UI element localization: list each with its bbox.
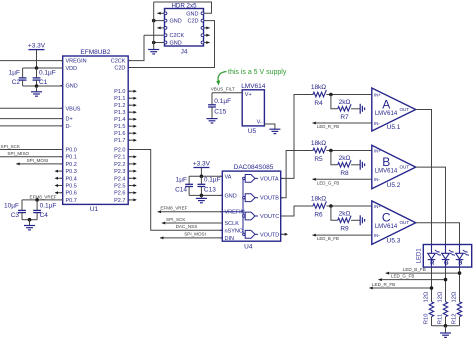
- U4 internal reference bus: [242, 178, 244, 234]
- wire C1 top lead: [36, 68, 38, 78]
- svg-text:SPI_MOSI: SPI_MOSI: [184, 232, 206, 237]
- capacitor C3 symbol: [18, 210, 26, 212]
- arrow net flag LED_B_FB: [312, 234, 315, 237]
- svg-text:U4: U4: [244, 243, 253, 250]
- wire C2CK U1 to header: [128, 35, 144, 60]
- wire stub P2.5: [128, 185, 136, 187]
- header J4 pin circles right: [201, 12, 204, 15]
- svg-text:C3: C3: [11, 212, 20, 219]
- svg-text:C14: C14: [175, 187, 187, 194]
- wire stub P2.2: [128, 163, 136, 165]
- wire C14 top lead: [188, 176, 190, 184]
- U4 output buffer VOUTD: [243, 230, 258, 238]
- DAC U4 DAC084S085 outline: [222, 171, 280, 241]
- svg-text:P2.3: P2.3: [114, 169, 125, 175]
- svg-text:B: B: [382, 155, 390, 169]
- svg-text:C13: C13: [204, 187, 216, 194]
- junction GND bus: [35, 84, 39, 88]
- arrow net stub header pin1: [157, 12, 160, 15]
- resistor R6 18k zigzag: [313, 201, 326, 208]
- wire stub P1.5: [128, 125, 136, 127]
- wire LED R cathode column: [431, 267, 433, 302]
- arrow net flag SPI_MOSI: [160, 236, 163, 239]
- wire stub P2.1: [128, 156, 136, 158]
- wire LED_R_FB tap: [369, 287, 431, 289]
- svg-text:P2.1: P2.1: [114, 155, 125, 161]
- svg-text:U5.1: U5.1: [387, 124, 401, 131]
- svg-text:0.1µF: 0.1µF: [39, 70, 56, 77]
- svg-text:P1.3: P1.3: [114, 110, 125, 116]
- svg-text:R11: R11: [438, 314, 444, 324]
- wire stub P1.6: [128, 132, 136, 134]
- junction R6/R9: [329, 204, 333, 208]
- wire stub P1.7: [128, 139, 136, 141]
- wire stub P2.7: [128, 199, 136, 201]
- wire +3.3V to VDD: [36, 50, 38, 68]
- svg-text:DAC084S085: DAC084S085: [234, 164, 274, 171]
- svg-text:GND: GND: [225, 193, 237, 199]
- ground at R7: [360, 104, 364, 114]
- svg-text:18kΩ: 18kΩ: [311, 140, 326, 147]
- wire C3 bottom lead: [21, 213, 23, 220]
- svg-text:IN-: IN-: [374, 233, 381, 238]
- wire header right stub 3: [203, 42, 210, 44]
- resistor R4 18k zigzag: [313, 90, 326, 97]
- svg-text:J4: J4: [181, 49, 188, 56]
- svg-text:12Ω: 12Ω: [424, 291, 430, 302]
- svg-text:R8: R8: [340, 170, 349, 177]
- wire VOUTC to R6: [281, 206, 313, 216]
- svg-text:12Ω: 12Ω: [438, 291, 444, 302]
- wire VBUS from left edge: [0, 107, 63, 109]
- arrow net flag LED_B_FB: [386, 272, 389, 275]
- wire stub P2.3: [128, 170, 136, 172]
- svg-text:GND: GND: [170, 41, 182, 47]
- svg-text:LED_R_FB: LED_R_FB: [317, 124, 339, 129]
- svg-text:R4: R4: [314, 100, 323, 107]
- wire junction down to R7: [331, 95, 338, 109]
- svg-text:R: R: [430, 260, 434, 266]
- ground at C15: [207, 119, 218, 123]
- wire header C2CK pin: [144, 34, 166, 36]
- svg-text:C1: C1: [39, 79, 48, 86]
- LED package LED1 outline: [423, 245, 471, 268]
- wire C15 bottom lead: [211, 107, 213, 118]
- wire U5.3 output to LED: [416, 223, 460, 245]
- arrow net flag LED_R_FB: [369, 287, 372, 290]
- wire stub P1.0: [128, 90, 136, 92]
- svg-text:R9: R9: [340, 225, 349, 232]
- svg-text:10µF: 10µF: [4, 203, 19, 210]
- wire header right stub 2: [203, 34, 210, 36]
- ground at U5 V-: [269, 129, 280, 133]
- arrow net stub: [206, 26, 209, 29]
- wire SPI_MOSI to U4 DIN: [160, 237, 222, 239]
- wire C1 bottom lead: [36, 80, 38, 86]
- svg-text:DIN: DIN: [225, 236, 235, 242]
- wire stub P2.4: [128, 177, 136, 179]
- wire C3 top lead: [21, 200, 23, 211]
- svg-text:LED_B_FB: LED_B_FB: [403, 267, 426, 272]
- +3.3V supply at U4: [193, 160, 211, 167]
- capacitor C2 symbol: [19, 78, 27, 80]
- arrow net flag SPI_SCK: [162, 222, 165, 225]
- svg-text:GND: GND: [186, 11, 198, 17]
- wire VOUTD stub: [281, 233, 287, 235]
- microcontroller U1 EFM8UB2 outline: [63, 56, 129, 204]
- wire R8 to ground: [351, 164, 360, 166]
- svg-text:12Ω: 12Ω: [452, 291, 458, 302]
- junction VA / +3.3V: [200, 175, 204, 179]
- svg-text:V-: V-: [257, 120, 262, 126]
- wire LED_R_FB to IN-: [312, 122, 371, 124]
- svg-text:P1.4: P1.4: [114, 117, 125, 123]
- svg-text:P0.3: P0.3: [66, 169, 77, 175]
- wire LED G cathode column: [445, 267, 447, 302]
- svg-text:R10: R10: [424, 314, 430, 325]
- svg-text:OUT: OUT: [399, 165, 409, 170]
- svg-text:SCLK: SCLK: [225, 221, 240, 227]
- ground at R8: [360, 160, 364, 170]
- arrow net flag LED_G_FB: [312, 178, 315, 181]
- svg-text:LED_B_FB: LED_B_FB: [317, 236, 339, 241]
- wire LED_B_FB to IN-: [312, 234, 371, 236]
- svg-text:LMV614: LMV614: [375, 111, 398, 117]
- junction GND bus / pin3: [152, 19, 156, 23]
- svg-text:P2.0: P2.0: [114, 148, 125, 154]
- capacitor C15 symbol: [208, 105, 216, 107]
- op-amp power U5 outline: [242, 90, 264, 126]
- svg-text:0.1µF: 0.1µF: [204, 176, 221, 183]
- wire stub P0.5: [56, 185, 63, 187]
- svg-text:LED_G_FB: LED_G_FB: [317, 180, 340, 185]
- svg-text:P1.7: P1.7: [114, 138, 125, 144]
- svg-text:A: A: [382, 97, 390, 111]
- svg-text:nSYNC: nSYNC: [225, 228, 243, 234]
- svg-text:P0.7: P0.7: [66, 198, 77, 204]
- arrow net stub: [206, 41, 209, 44]
- wire SPI_SCK to P0.0: [0, 149, 63, 151]
- junction bottom bus gnd drop: [28, 218, 32, 222]
- wire to ground C3 C4: [29, 220, 31, 226]
- wire R11 to gnd bus: [445, 317, 447, 326]
- junction GND bus at U4: [200, 194, 204, 198]
- LED G symbol in LED1: [442, 245, 455, 268]
- junction VDD / +3.3V: [35, 66, 39, 70]
- U4 output buffer VOUTC: [243, 212, 258, 220]
- svg-text:P1.0: P1.0: [114, 89, 125, 95]
- wire R4 to IN+: [326, 94, 371, 96]
- wire stub P1.2: [128, 104, 136, 106]
- svg-text:C2D: C2D: [187, 19, 198, 25]
- LED R symbol in LED1: [428, 245, 441, 268]
- wire R10 to gnd bus: [431, 317, 433, 326]
- svg-text:EFM8_VREF: EFM8_VREF: [160, 206, 187, 211]
- arrow net flag LED_R_FB: [312, 122, 315, 125]
- resistor R12 12ohm zigzag: [457, 302, 461, 317]
- wire header right stub 1: [203, 27, 210, 29]
- svg-text:U1: U1: [90, 206, 99, 213]
- svg-text:DAC_NSS: DAC_NSS: [176, 224, 198, 229]
- svg-text:P0.2: P0.2: [66, 162, 77, 168]
- wire header GND bus vertical: [153, 2, 155, 50]
- wire VBUS_FILT to U5 V+: [212, 92, 242, 94]
- wire SPI_SCK to U4 SCLK: [162, 222, 223, 224]
- +3.3V supply at U1: [28, 43, 46, 50]
- svg-text:D-: D-: [66, 124, 72, 130]
- svg-text:C4: C4: [40, 212, 49, 219]
- junction LED_B_FB / B column: [458, 271, 462, 275]
- wire stub P2.6: [128, 192, 136, 194]
- svg-text:P2.2: P2.2: [114, 162, 125, 168]
- wire R5 to IN+: [326, 150, 371, 152]
- svg-text:V+: V+: [245, 92, 252, 98]
- wire VDD bus: [23, 67, 63, 69]
- junction C4 top: [35, 198, 39, 202]
- svg-text:P1.5: P1.5: [114, 124, 125, 130]
- svg-text:VA: VA: [225, 174, 232, 180]
- wire header pin1 stub: [157, 12, 165, 14]
- svg-text:G: G: [444, 260, 448, 266]
- svg-text:P0.0: P0.0: [66, 148, 77, 154]
- svg-text:VOUTB: VOUTB: [260, 196, 279, 202]
- svg-text:VOUTD: VOUTD: [260, 232, 279, 238]
- wire LED_G_FB tap: [378, 279, 445, 281]
- capacitor C13 symbol: [198, 184, 206, 186]
- U4 output buffer VOUTB: [243, 194, 258, 202]
- wire stub P0.4: [56, 177, 63, 179]
- arrow net flag EFM8_VREF: [158, 210, 161, 213]
- wire C14 bottom lead: [188, 187, 190, 196]
- wire EFM8_VREF to U4 VREFIN: [158, 211, 223, 213]
- wire SPI_MISO to P0.1: [0, 156, 63, 158]
- svg-text:GND: GND: [66, 84, 78, 90]
- svg-text:P2.7: P2.7: [114, 198, 125, 204]
- wire junction down to R9: [331, 206, 338, 220]
- wire VOUTB to R5: [281, 151, 313, 198]
- svg-text:P1.6: P1.6: [114, 131, 125, 137]
- resistor R10 12ohm zigzag: [429, 302, 433, 317]
- svg-text:OUT: OUT: [399, 220, 409, 225]
- wire LED_B_FB tap: [386, 272, 460, 274]
- svg-text:0.1µF: 0.1µF: [214, 98, 231, 105]
- resistor R8 2k zigzag: [338, 160, 351, 167]
- resistor R7 2k zigzag: [338, 104, 351, 111]
- svg-text:this is a 5 V supply: this is a 5 V supply: [228, 69, 287, 76]
- junction LED_G_FB / G column: [444, 278, 448, 282]
- op-amp U5.1 triangle: [372, 88, 416, 131]
- ground at R9: [360, 215, 364, 225]
- svg-text:D+: D+: [66, 117, 73, 123]
- wire U5.1 output to LED: [416, 110, 432, 245]
- wire GND bus to U1 GND: [23, 85, 63, 87]
- wire to ground at U4: [200, 195, 202, 198]
- wire stub P0.6: [56, 192, 63, 194]
- svg-text:P2.6: P2.6: [114, 191, 125, 197]
- svg-text:B: B: [458, 260, 462, 266]
- wire R7 to ground: [351, 108, 360, 110]
- wire header pin9 GND to bus: [154, 42, 166, 44]
- resistor R9 2k zigzag: [338, 216, 351, 223]
- wire LED_G_FB to IN-: [312, 178, 371, 180]
- wire EFM8_VREF from P0.7: [22, 199, 63, 201]
- wire C15 top lead: [211, 93, 213, 105]
- op-amp U5.2 triangle: [372, 145, 416, 189]
- svg-text:18kΩ: 18kΩ: [311, 84, 326, 91]
- svg-text:C2CK: C2CK: [170, 33, 185, 39]
- capacitor C14 symbol: [185, 184, 193, 186]
- svg-text:R5: R5: [314, 156, 323, 163]
- junction gnd bus center: [444, 324, 448, 328]
- svg-text:SPI_SCK: SPI_SCK: [1, 144, 21, 149]
- arrow net stub VOUTD: [285, 233, 288, 236]
- svg-text:C2D: C2D: [114, 66, 125, 72]
- svg-text:R6: R6: [314, 212, 323, 219]
- svg-text:1µF: 1µF: [9, 70, 20, 77]
- svg-text:2kΩ: 2kΩ: [339, 155, 351, 162]
- resistor R5 18k zigzag: [313, 146, 326, 153]
- wire R9 to ground: [351, 219, 360, 221]
- svg-text:U5: U5: [248, 128, 257, 135]
- svg-text:P1.2: P1.2: [114, 103, 125, 109]
- wire C2D net header to U1: [128, 21, 214, 68]
- svg-text:18kΩ: 18kΩ: [311, 195, 326, 202]
- ground under header J4: [148, 50, 159, 54]
- wire D+ from left edge: [0, 118, 63, 120]
- U1 pin ticks: [61, 61, 131, 200]
- wire stub P1.1: [128, 97, 136, 99]
- svg-text:IN-: IN-: [374, 177, 381, 182]
- svg-text:P1.1: P1.1: [114, 96, 125, 102]
- wire header pin5 stub: [157, 27, 165, 29]
- arrow net flag LED_G_FB: [378, 278, 381, 281]
- junction GND bus / pin9: [152, 41, 156, 45]
- op-amp U5.3 triangle: [372, 201, 416, 245]
- wire C3 C4 bottom bus: [22, 219, 37, 221]
- wire U5.2 output to LED: [416, 167, 446, 244]
- svg-text:C15: C15: [214, 109, 226, 116]
- svg-text:0.1µF: 0.1µF: [40, 203, 57, 210]
- wire U5 V- to ground: [264, 124, 275, 129]
- svg-text:IN+: IN+: [374, 148, 382, 153]
- wire D- from left edge: [0, 125, 63, 127]
- arrow net stub header pin5: [157, 26, 160, 29]
- wire VA bus: [189, 175, 222, 177]
- svg-text:LMV614: LMV614: [375, 224, 398, 230]
- ground at U4 decoupling: [196, 198, 207, 202]
- wire C13 top lead: [200, 176, 202, 184]
- svg-text:VBUS_FILT: VBUS_FILT: [211, 87, 235, 92]
- wire stub P0.3: [56, 170, 63, 172]
- wire +3.3V to VA: [200, 168, 202, 177]
- wire C2 bottom lead: [22, 80, 24, 86]
- wire DAC_NSS P2.0 to U4 nSYNC: [128, 150, 222, 231]
- svg-text:SPI_SCK: SPI_SCK: [166, 217, 186, 222]
- junction R4/R7: [329, 93, 333, 97]
- resistor R11 12ohm zigzag: [443, 302, 447, 317]
- ground at U1 decoupling: [31, 92, 42, 96]
- header J4 outline: [165, 9, 204, 47]
- wire C4 top lead: [36, 200, 38, 211]
- svg-text:+3.3V: +3.3V: [28, 43, 46, 50]
- svg-text:P2.5: P2.5: [114, 184, 125, 190]
- svg-text:2kΩ: 2kΩ: [339, 99, 351, 106]
- wire LED B cathode column: [459, 267, 461, 302]
- wire VREGIN from left edge: [0, 60, 63, 62]
- svg-text:LED_R_FB: LED_R_FB: [372, 282, 395, 287]
- svg-text:SPI_MOSI: SPI_MOSI: [27, 158, 49, 163]
- svg-text:P0.6: P0.6: [66, 191, 77, 197]
- svg-text:P0.1: P0.1: [66, 155, 77, 161]
- svg-text:R7: R7: [340, 114, 349, 121]
- svg-text:VBUS: VBUS: [66, 106, 81, 112]
- wire stub P1.4: [128, 118, 136, 120]
- wire R6 to IN+: [326, 205, 371, 207]
- svg-text:C2CK: C2CK: [111, 59, 126, 65]
- wire header pin3 GND to bus: [154, 20, 166, 22]
- wire header right GND loop: [154, 2, 212, 13]
- svg-text:IN-: IN-: [374, 121, 381, 126]
- svg-text:VOUTC: VOUTC: [260, 214, 279, 220]
- ground at LED resistors: [440, 333, 451, 337]
- svg-text:OUT: OUT: [399, 107, 409, 112]
- svg-text:LED1: LED1: [416, 248, 422, 264]
- junction LED_R_FB / R column: [430, 286, 434, 290]
- ground at C3 C4: [24, 226, 35, 230]
- LED B symbol in LED1: [456, 245, 469, 268]
- U4 VREFIN internal connection: [222, 211, 243, 213]
- U4 pin ticks: [220, 176, 283, 238]
- svg-text:EFM8UB2: EFM8UB2: [80, 49, 110, 56]
- svg-text:LMV614: LMV614: [241, 83, 266, 90]
- wire C13 bottom lead: [200, 187, 202, 196]
- svg-text:VREFIN: VREFIN: [225, 210, 245, 216]
- svg-text:IN+: IN+: [374, 92, 382, 97]
- annotation arrow: [218, 72, 226, 82]
- wire to ground: [36, 86, 38, 92]
- wire GND bus to U4 GND: [189, 194, 222, 196]
- junction R5/R8: [329, 149, 333, 153]
- svg-text:VDD: VDD: [66, 66, 78, 72]
- U4 output buffer VOUTA: [243, 175, 258, 183]
- svg-text:U5.2: U5.2: [387, 182, 401, 189]
- svg-text:R12: R12: [452, 314, 458, 325]
- svg-text:2kΩ: 2kΩ: [339, 211, 351, 218]
- header J4 pin circles left: [164, 12, 167, 15]
- svg-text:VREGIN: VREGIN: [66, 59, 87, 65]
- svg-text:P0.5: P0.5: [66, 184, 77, 190]
- svg-text:C: C: [382, 211, 391, 225]
- wire stub P1.3: [128, 111, 136, 113]
- svg-text:C2: C2: [12, 79, 21, 86]
- wire R12 to gnd bus: [459, 317, 461, 326]
- svg-text:IN+: IN+: [374, 204, 382, 209]
- capacitor C4 symbol: [33, 210, 41, 212]
- wire SPI_MOSI to P0.2: [16, 163, 63, 165]
- svg-text:HDR 2x5: HDR 2x5: [171, 3, 197, 10]
- svg-text:VOUTA: VOUTA: [260, 176, 279, 182]
- capacitor C1 symbol: [33, 78, 41, 80]
- wire R10 R11 R12 ground bus: [432, 325, 460, 327]
- wire C4 bottom lead: [36, 213, 38, 220]
- wire gnd bus drop: [445, 326, 447, 333]
- svg-text:LMV614: LMV614: [375, 169, 398, 175]
- svg-text:P2.4: P2.4: [114, 176, 125, 182]
- wire junction down to R8: [331, 151, 338, 165]
- svg-text:EFM8_VREF: EFM8_VREF: [30, 194, 57, 199]
- svg-text:LED_G_FB: LED_G_FB: [391, 274, 415, 279]
- svg-text:SPI_MISO: SPI_MISO: [7, 151, 29, 156]
